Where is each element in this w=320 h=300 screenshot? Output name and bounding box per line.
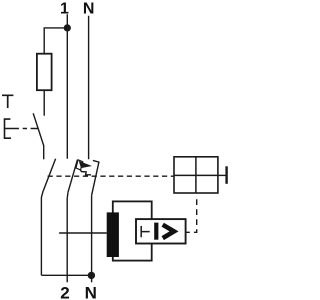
relay input terminal xyxy=(141,226,150,237)
trip coil middle bar xyxy=(174,174,218,176)
wire test branch (junction to resistor) xyxy=(44,28,67,54)
wire pole1 upper vertical xyxy=(66,14,68,159)
test button contact blade xyxy=(33,113,44,145)
current transformer bracket xyxy=(113,201,152,260)
trip coil terminal bar xyxy=(225,166,227,184)
junction dot bottom xyxy=(88,272,95,279)
test button label T xyxy=(2,95,13,109)
wire CT primary xyxy=(59,232,107,234)
svg-text:N: N xyxy=(83,0,95,17)
trip mechanism arrow xyxy=(79,161,92,168)
trip coil divider xyxy=(195,157,197,193)
relay symbol I xyxy=(154,223,158,240)
main contact blade N pole xyxy=(92,160,99,195)
wire test lower vertical xyxy=(41,191,43,275)
resistor R test xyxy=(37,54,52,90)
test button link dashes xyxy=(23,128,38,130)
wire resistor to test contact xyxy=(43,90,45,115)
trip mechanism flag xyxy=(76,160,83,170)
trip coil box xyxy=(174,157,218,193)
current transformer core xyxy=(107,212,119,257)
wire N lower vertical xyxy=(91,195,93,282)
main contact blade pole 1 xyxy=(68,160,77,192)
trip coil right stub xyxy=(218,174,226,176)
relay symbol greater-than xyxy=(163,225,174,238)
wire test contact to test pole xyxy=(43,145,45,159)
junction dot top xyxy=(64,24,71,31)
svg-text:N: N xyxy=(85,283,97,300)
svg-text:2: 2 xyxy=(60,283,69,300)
wire N upper vertical xyxy=(88,16,90,160)
mechanical linkage dashed xyxy=(48,175,174,177)
wire bottom horizontal to N xyxy=(41,274,91,276)
test button actuator E xyxy=(4,119,19,139)
dashed link coil to relay xyxy=(186,199,197,232)
trip mechanism latch step xyxy=(80,170,91,175)
residual current relay box xyxy=(136,219,186,243)
test pole contact blade xyxy=(43,159,56,192)
wire pole1 lower vertical xyxy=(66,192,69,282)
